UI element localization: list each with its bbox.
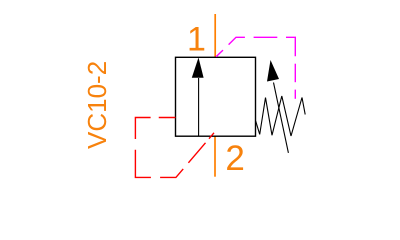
wire vertical dash (end) [294,90,296,99]
svg-text:1: 1 [187,20,206,58]
wire horizontal dash + corner diagonal [160,169,183,178]
wire top horizontal dash at box [159,117,176,119]
wire horizontal dash + corner down [286,37,295,56]
wire horizontal dash [254,36,278,38]
wire diagonal dash 2 + corner to horizontal [229,37,245,44]
wire vertical dash + corner right + horizontal dash [135,150,151,178]
check-flow arrow (vertical, inside box) [192,58,204,137]
wire vertical dash [294,64,296,82]
pilot arrow (diagonal, over spring) [267,60,288,153]
spring [256,96,306,136]
valve body box [176,57,256,136]
wire diagonal dash [188,143,205,163]
wire port 2 (orange) [214,136,216,177]
svg-text:VC10-2: VC10-2 [82,61,112,149]
wire top horizontal dash + corner down [135,118,150,140]
drain line (red dashed): box left side to port 2 [135,118,214,178]
pilot line (magenta dashed): port 1 to spring [216,37,295,99]
wire diagonal dash 1 [216,50,223,57]
wire port 1 (orange) [214,14,216,57]
svg-text:2: 2 [225,139,244,178]
wire diagonal dash (end) [209,133,214,139]
